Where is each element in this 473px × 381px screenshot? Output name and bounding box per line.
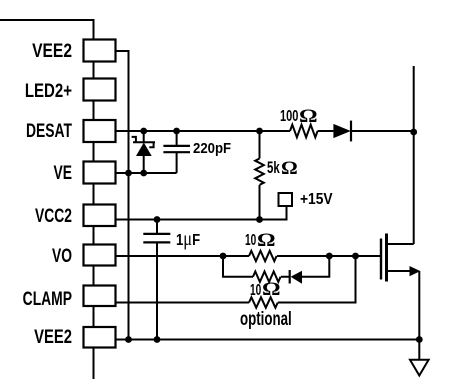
value label 5kohm digits — [267, 160, 280, 177]
value label 1uF — [176, 231, 200, 249]
wire VE rail — [116, 172, 177, 174]
value label 100ohm omega — [299, 107, 318, 126]
resistor 100ohm — [290, 125, 318, 138]
value label +15V — [300, 192, 333, 208]
zener diode DESAT to VE — [132, 131, 155, 173]
transistor Q1 gate bar — [380, 239, 382, 280]
wire DESAT rail — [116, 130, 414, 132]
resistor 10ohm branch — [253, 272, 281, 282]
pin box DESAT — [84, 120, 116, 142]
ground — [410, 340, 429, 376]
pin label DESAT — [19, 122, 72, 141]
value label 10ohm CLAMP digits — [250, 283, 261, 299]
value label 10ohm CLAMP omega — [262, 280, 281, 299]
wire CLAMP rail — [116, 256, 356, 303]
pin label CLAMP — [19, 290, 72, 309]
wire VO rail — [116, 255, 382, 257]
pin label VEE2 bottom — [16, 328, 72, 347]
pin label VCC2 — [19, 207, 72, 226]
pin label LED2+ — [15, 82, 72, 101]
pin box VEE2 top — [84, 40, 116, 62]
pin box CLAMP — [84, 286, 116, 307]
diode D2 (points left) — [290, 270, 302, 284]
wire VEE2 tie rail (top VEE2 to bottom rail) — [116, 51, 129, 340]
wire top-left to VEE2 pin — [0, 20, 94, 40]
wire stubs between pin boxes — [93, 62, 95, 380]
pin box VCC2 — [84, 205, 116, 227]
transistor Q1 channel bar — [385, 234, 388, 282]
value label 100ohm digits — [280, 109, 298, 125]
wire parallel branch — [223, 256, 329, 277]
resistor 10ohm CLAMP — [249, 297, 278, 307]
capacitor 1uF — [143, 220, 170, 340]
value label optional — [240, 310, 292, 329]
wire collector bus vertical — [413, 66, 415, 244]
pin label VEE2 top — [13, 42, 72, 61]
transistor Q1 drain lead — [387, 243, 414, 245]
transistor Q1 source lead with arrow — [387, 266, 421, 340]
value label 220pF — [193, 142, 231, 157]
resistor 10ohm VO — [249, 251, 277, 261]
pin box VE — [84, 162, 116, 184]
wire bottom VEE2 rail — [116, 339, 420, 341]
pin label VE — [19, 164, 72, 183]
pin box VO — [84, 245, 116, 266]
diode D1 — [333, 121, 351, 142]
pin label VO — [19, 247, 72, 266]
value label 10ohm VO digits — [245, 233, 256, 249]
capacitor 220pF — [163, 131, 190, 173]
value label 5kohm omega — [281, 159, 298, 178]
supply +15V square — [279, 193, 293, 206]
pin box VEE2 bottom — [84, 327, 116, 348]
value label 10ohm VO omega — [257, 231, 276, 250]
resistor 5kohm — [255, 131, 264, 220]
pin box LED2+ — [84, 79, 116, 101]
wire VCC2 rail — [116, 206, 287, 220]
